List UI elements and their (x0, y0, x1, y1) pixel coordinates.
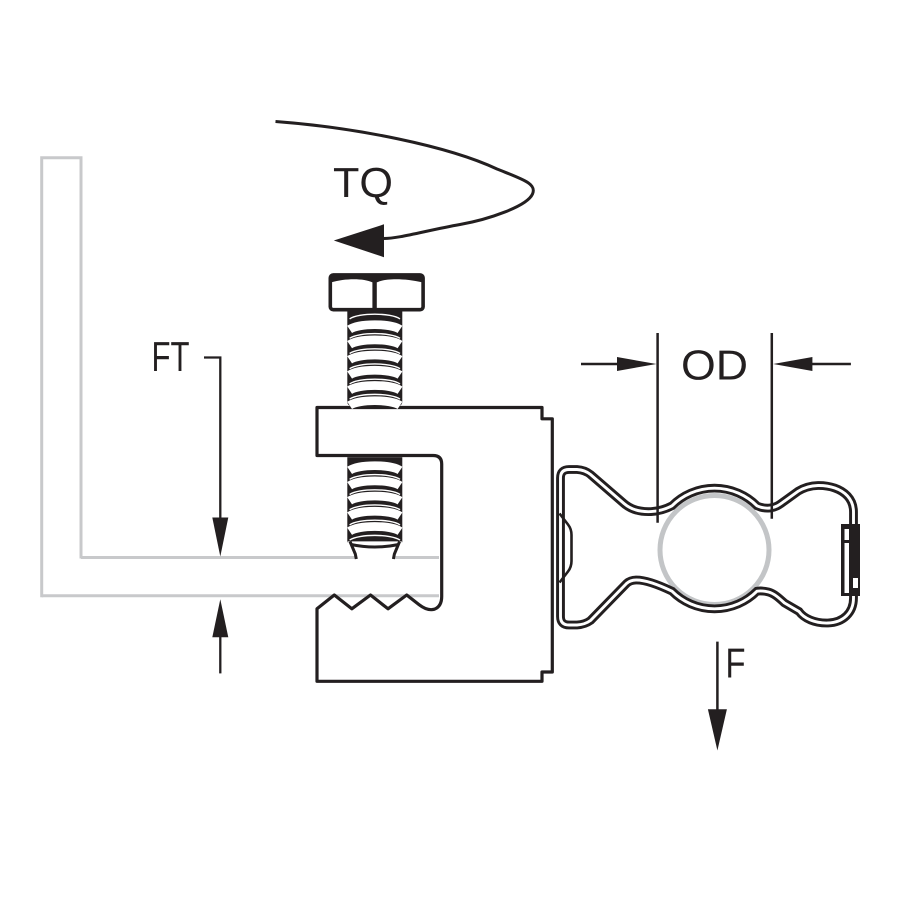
clamp body (C-clamp with serrated lower jaw) (317, 408, 552, 682)
F force arrow (716, 642, 719, 711)
torque sweep arc (276, 122, 534, 239)
bolt upper thread stack (347, 306, 402, 406)
OD right arrow (810, 363, 851, 366)
bolt tip (348, 541, 403, 559)
hex bolt head (330, 275, 423, 310)
FT dimension (204, 358, 220, 520)
svg-text:OD: OD (681, 342, 748, 389)
svg-text:TQ: TQ (333, 159, 393, 206)
conduit spring clip (bowtie), double-line (561, 470, 854, 626)
beam flange (gray L-angle) (42, 158, 439, 597)
clip pressure bump (against clamp) (560, 514, 572, 583)
torque arrowhead (334, 224, 384, 257)
svg-text:FT: FT (152, 333, 190, 380)
svg-text:F: F (726, 640, 746, 687)
OD extension lines (656, 333, 659, 523)
conduit (gray circle) (660, 496, 769, 605)
clip latch tab (841, 524, 860, 596)
OD left arrow (581, 363, 620, 366)
bolt lower thread stack (inside clamp throat) (347, 457, 402, 542)
